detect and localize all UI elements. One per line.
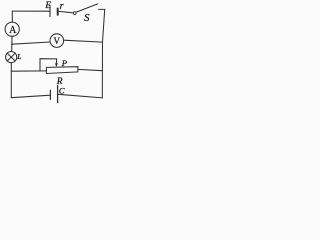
switch S blade [76, 4, 98, 12]
svg-text:C: C [59, 85, 65, 95]
voltmeter V circle [50, 34, 64, 48]
wire lamp to bottom-left corner [10, 63, 12, 98]
battery E short plate [57, 9, 59, 15]
wire right vertical [102, 9, 104, 98]
wire voltmeter branch right [64, 40, 103, 42]
svg-text:S: S [84, 12, 90, 24]
capacitor C left plate [49, 90, 51, 99]
slider P arrowhead [55, 63, 58, 67]
svg-text:r: r [60, 1, 64, 12]
wire voltmeter branch left [12, 42, 50, 44]
capacitor C right plate [57, 86, 59, 103]
svg-text:L: L [16, 52, 21, 61]
wire top-right stub [99, 8, 105, 10]
svg-text:P: P [61, 58, 67, 68]
wire top-left horizontal [12, 10, 49, 12]
wire battery to switch [59, 11, 74, 12]
wire node to lamp [11, 44, 13, 51]
wire ammeter to node A junction [11, 36, 13, 44]
rheostat R left lead [11, 70, 46, 72]
rheostat R right lead [78, 69, 103, 70]
wire bottom-left horizontal [11, 95, 50, 98]
junction node dot [11, 43, 13, 45]
svg-text:V: V [54, 36, 61, 46]
battery E long plate [49, 5, 51, 16]
svg-text:A: A [9, 25, 17, 36]
svg-text:E: E [44, 0, 51, 10]
wire capacitor to bottom-right corner [58, 94, 102, 98]
lamp L circle [6, 52, 17, 63]
wire left vertical (corner to ammeter) [11, 11, 13, 22]
ammeter A circle [5, 22, 19, 36]
slider P wire [40, 59, 57, 71]
switch S pivot [73, 12, 76, 15]
rheostat R body [46, 67, 78, 74]
lamp L cross [7, 53, 15, 61]
